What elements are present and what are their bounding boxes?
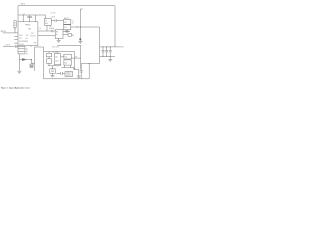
capacitor C10 series [52, 30, 55, 32]
label rows mid [52, 47, 59, 55]
svg-text:W1: W1 [56, 32, 59, 34]
svg-text:D2: D2 [49, 26, 51, 28]
svg-text:VOUT: VOUT [119, 47, 123, 49]
svg-text:R7: R7 [75, 56, 77, 58]
wire U1 top pin 3 [34, 15, 36, 22]
wire right branch vertical [80, 45, 82, 69]
svg-text:TPS54: TPS54 [25, 25, 30, 27]
capacitor C8 horizontal [56, 72, 65, 75]
capacitor C5 [105, 47, 108, 57]
IC U3 box [54, 54, 61, 65]
label VBUS on top rail [20, 3, 25, 5]
svg-text:D3: D3 [64, 22, 66, 24]
svg-text:R10 100k: R10 100k [52, 47, 59, 49]
caption title text [1, 86, 30, 89]
wire U1 bottom stub [30, 46, 32, 47]
svg-text:C2: C2 [23, 14, 25, 16]
wire R5-R6 links [48, 52, 50, 66]
wire U3 to U4 [61, 56, 64, 58]
IC U1 controller box [18, 22, 38, 46]
svg-text:U5: U5 [65, 62, 67, 64]
label L1 [50, 12, 56, 18]
wire sense vertical upper [80, 9, 82, 27]
ladder pin labels [26, 47, 28, 55]
svg-text:U3: U3 [55, 56, 57, 58]
svg-text:Figure 1. Typical Application: Figure 1. Typical Application Circuit [1, 86, 30, 89]
U1 part number text [21, 25, 31, 43]
wire return right leg [88, 64, 90, 79]
label above ladder [5, 44, 11, 46]
resistor ladder R1-R4 [3, 45, 25, 54]
node sense pad [79, 38, 81, 40]
svg-text:LTC3876: LTC3876 [21, 41, 28, 43]
capacitor C3 series link [51, 19, 63, 22]
ground under D4 [65, 30, 69, 33]
wire cap bank rail bottom [100, 55, 115, 57]
resistor R8 input leg box [14, 21, 16, 33]
resistor R9 box [68, 34, 74, 38]
ground right cluster [77, 76, 81, 78]
svg-text:TRK: TRK [26, 35, 29, 37]
svg-text:C3 1nF: C3 1nF [50, 12, 55, 14]
wire D4 output to right [71, 26, 100, 28]
svg-text:D4: D4 [64, 27, 66, 29]
wire U3 top stub [57, 52, 59, 54]
diode D4 box lower [64, 25, 71, 30]
resistor R5 box [46, 53, 51, 57]
wire cluster top rail [44, 51, 75, 53]
node VIN input terminal [1, 31, 19, 33]
wire ground leg right cluster [78, 70, 80, 77]
svg-text:CS: CS [39, 28, 41, 30]
label C2 [23, 14, 25, 16]
wire module bottom rail [44, 78, 90, 80]
wire U1 top pin bus [18, 15, 46, 22]
wire U1 SW output [38, 30, 51, 32]
svg-text:VIN 9V: VIN 9V [1, 31, 7, 33]
wire U1 BST output [38, 34, 55, 36]
svg-text:C5: C5 [72, 21, 74, 23]
wire diode to module [32, 60, 35, 64]
node junction dot 2 [80, 27, 81, 28]
wire cap bank rail top [100, 46, 115, 48]
module left edge [34, 47, 36, 71]
transistor Q1 box [50, 69, 56, 73]
wire ground return horizontal [81, 63, 99, 65]
node junction dot cluster [74, 68, 75, 69]
svg-text:1u: 1u [14, 29, 16, 31]
wire L1 bottom stub [46, 25, 48, 31]
wire right rail drop [114, 6, 116, 47]
capacitor C6 [109, 47, 112, 57]
wire U1 left pin stubs [14, 36, 18, 43]
wire W1 right pin upper [63, 31, 70, 33]
wire top VIN rail [18, 5, 115, 7]
label D2 [49, 26, 55, 30]
svg-text:2p: 2p [72, 23, 74, 25]
wire under U5 [62, 65, 79, 69]
capacitor C7 return leg [80, 64, 83, 79]
svg-text:L1: L1 [45, 20, 47, 22]
wire left rail drop [17, 6, 19, 22]
diode D3 box upper [64, 20, 71, 25]
wire under U3 [48, 66, 61, 69]
wire module top rail [35, 46, 44, 48]
connector J1 hatched box [65, 72, 73, 77]
label above D3 [64, 17, 69, 20]
node junction dot 1 [77, 27, 78, 28]
wire cluster right vertical [74, 52, 76, 69]
svg-text:260: 260 [28, 29, 31, 31]
component X1 on module edge [30, 64, 33, 68]
wire module internal vertical [43, 47, 45, 79]
wire sense vertical lower [79, 27, 81, 42]
wire ladder down leg [18, 54, 20, 71]
svg-text:4u7: 4u7 [45, 23, 48, 25]
ground ladder leg [17, 71, 21, 73]
resistor R6 box [46, 59, 51, 64]
node junction dot diode [31, 59, 32, 60]
node VOUT terminal [115, 47, 124, 49]
label R7 [75, 56, 77, 58]
svg-text:R9: R9 [72, 35, 74, 37]
label CS [39, 28, 41, 30]
wire output node vertical [99, 27, 101, 64]
U1 pin text rows right [30, 33, 37, 45]
node junction dot return [89, 63, 90, 64]
capacitor C4 [102, 47, 105, 57]
ground under W1 [57, 38, 61, 42]
svg-text:BOOST: BOOST [30, 35, 36, 37]
node junction dots cap bank [103, 46, 111, 57]
label right of D3 [72, 21, 74, 25]
IC U4 box [64, 54, 71, 59]
wire W1 right pin lower [63, 34, 68, 36]
capacitor C2 bootstrap [27, 15, 32, 22]
svg-text:U4: U4 [65, 57, 67, 59]
U1 pin text rows left [19, 35, 29, 46]
IC W1 snubber box [55, 30, 63, 39]
diode D1 [19, 58, 31, 60]
inductor L1 box [44, 19, 51, 26]
wire U4 right [71, 57, 80, 59]
ground cap bank [108, 56, 112, 61]
ground under Q1 [50, 73, 54, 77]
wire mid rail right [57, 44, 81, 46]
ground sense line [78, 42, 82, 44]
IC U5 box [64, 60, 71, 65]
